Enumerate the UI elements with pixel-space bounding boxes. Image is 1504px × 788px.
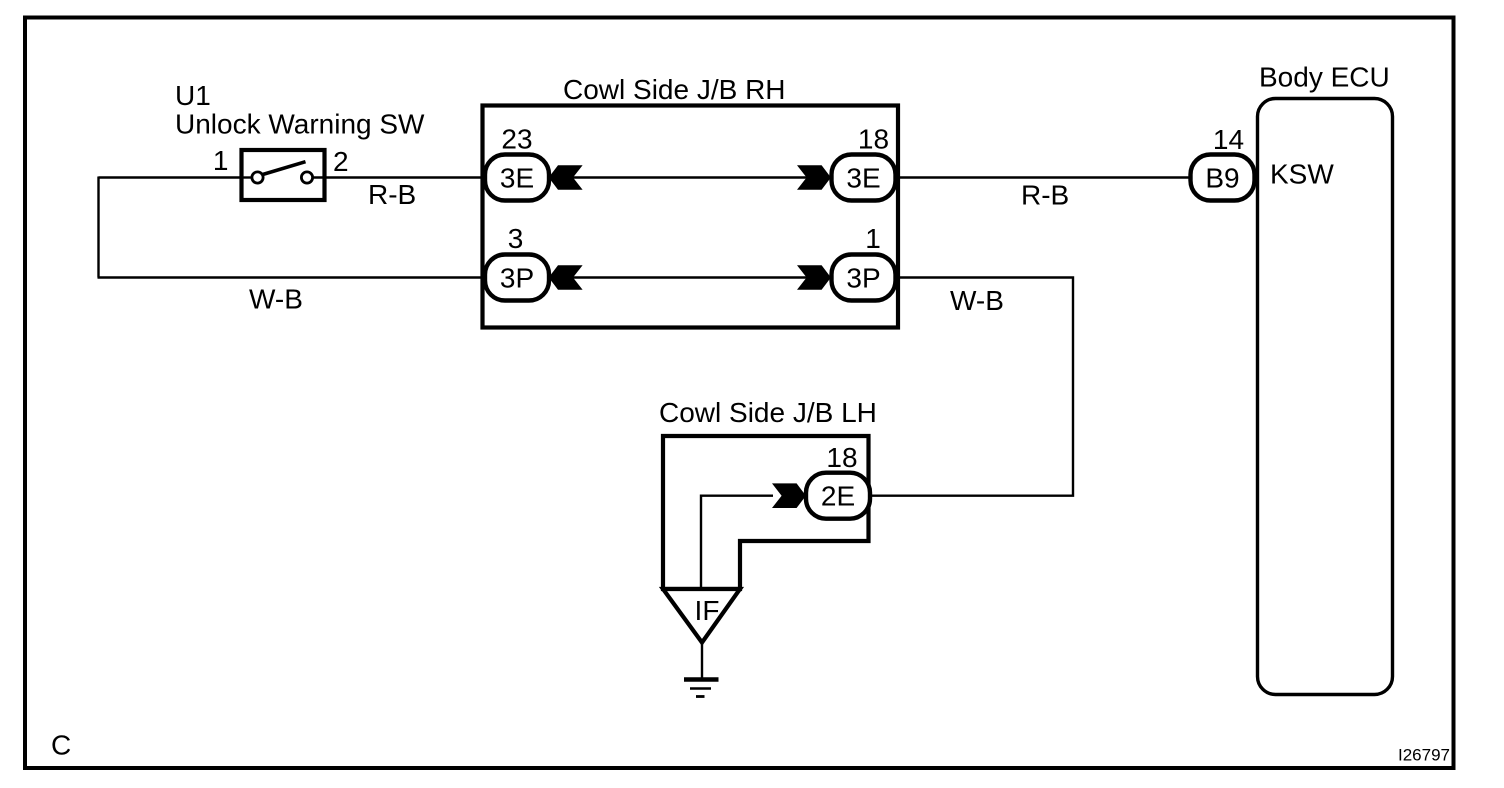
svg-text:Unlock Warning SW: Unlock Warning SW <box>175 109 425 140</box>
arrow into 3P right <box>797 265 831 290</box>
svg-text:I26797: I26797 <box>1398 746 1450 765</box>
junction block Cowl Side J/B LH <box>663 436 869 589</box>
connector 3E right <box>832 155 896 201</box>
arrow into 2E <box>772 483 806 508</box>
wire R-B from switch to 3E <box>324 176 486 178</box>
svg-text:23: 23 <box>501 124 532 155</box>
svg-text:Body ECU: Body ECU <box>1259 62 1390 93</box>
wire stub from right contact <box>308 176 325 178</box>
switch lever <box>261 162 306 175</box>
connector B9 <box>1191 155 1255 201</box>
svg-text:3E: 3E <box>500 162 534 193</box>
svg-text:IF: IF <box>695 595 720 626</box>
ground <box>701 642 703 678</box>
switch contact left <box>252 172 263 183</box>
connector 2E <box>806 473 870 519</box>
svg-text:R-B: R-B <box>1021 180 1069 211</box>
svg-text:1: 1 <box>865 223 881 254</box>
svg-text:Cowl Side J/B RH: Cowl Side J/B RH <box>563 74 786 105</box>
switch contact right <box>301 172 312 183</box>
svg-text:3: 3 <box>508 223 524 254</box>
svg-text:2E: 2E <box>821 481 855 512</box>
wire stub to left contact <box>241 176 256 178</box>
arrow into 3P left <box>549 265 583 290</box>
wire W-B right segment to 2E <box>871 278 1073 496</box>
svg-text:Cowl Side J/B LH: Cowl Side J/B LH <box>659 397 877 428</box>
svg-text:2: 2 <box>333 146 349 177</box>
svg-text:3P: 3P <box>846 262 880 293</box>
wire inside J/B RH bottom <box>484 276 832 278</box>
svg-text:14: 14 <box>1213 124 1244 155</box>
triangle IF <box>663 589 740 643</box>
svg-text:18: 18 <box>858 124 889 155</box>
connector 3P left <box>485 255 549 301</box>
svg-text:18: 18 <box>826 442 857 473</box>
svg-text:W-B: W-B <box>950 285 1004 316</box>
switch U1 box <box>242 150 325 200</box>
svg-text:3E: 3E <box>846 162 880 193</box>
connector 3P right <box>832 255 896 301</box>
ECU Body ECU box <box>1258 99 1393 695</box>
wire W-B left horizontal <box>98 276 487 278</box>
svg-text:3P: 3P <box>500 262 534 293</box>
svg-text:KSW: KSW <box>1270 159 1334 190</box>
wire inside J/B RH top <box>484 176 832 178</box>
junction block Cowl Side J/B RH <box>483 106 899 328</box>
arrow into 3E left <box>549 165 583 190</box>
wire R-B right segment <box>896 176 1191 178</box>
wire W-B left vertical <box>97 177 99 278</box>
svg-text:C: C <box>51 730 71 761</box>
svg-text:1: 1 <box>213 145 229 176</box>
svg-text:R-B: R-B <box>368 179 416 210</box>
svg-text:U1: U1 <box>175 80 211 111</box>
arrow into 3E right <box>797 165 831 190</box>
connector 3E left <box>485 155 549 201</box>
svg-text:W-B: W-B <box>249 284 303 315</box>
svg-text:B9: B9 <box>1205 162 1239 193</box>
wire R-B left segment <box>99 176 242 178</box>
wire inside J/B LH redraw <box>701 496 773 589</box>
